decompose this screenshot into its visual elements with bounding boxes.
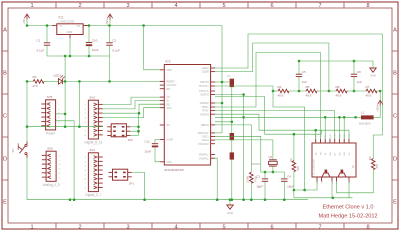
svg-text:R8: R8 <box>336 85 340 89</box>
node +3V3 bias tap <box>379 90 382 93</box>
capacitor C11 10uF <box>145 140 159 154</box>
svg-text:SV1: SV1 <box>89 148 95 152</box>
wire JP2 pin6 <box>130 135 138 137</box>
svg-text:Digital_0_7: Digital_0_7 <box>85 193 101 197</box>
wire C3 top <box>264 172 266 178</box>
svg-text:VI: VI <box>60 24 63 28</box>
wire C1 top <box>46 26 48 43</box>
svg-text:Power: Power <box>46 132 56 136</box>
wire D11/SI net <box>103 101 165 109</box>
wire D10/CS net <box>103 97 165 104</box>
svg-text:VO: VO <box>77 24 81 28</box>
wire C3 to rail <box>264 182 266 200</box>
wire SV5 vin pin down to rail <box>56 121 74 200</box>
capacitor C3 18pF <box>256 175 268 189</box>
wire +5V rail to IC1 VI <box>27 25 52 27</box>
wire JP1 to gnd rail <box>132 172 145 199</box>
svg-text:C11: C11 <box>145 140 151 144</box>
wire R3 top <box>293 134 295 160</box>
wire gnd line y126 <box>27 126 103 128</box>
wire vertical trunk x109 <box>109 56 111 81</box>
svg-text:SV2: SV2 <box>89 95 95 99</box>
svg-text:VDD: VDD <box>166 68 172 72</box>
supply +3V3 P3 <box>375 100 382 112</box>
svg-text:RDC: RDC <box>344 151 346 156</box>
wire R10 to rail <box>250 183 252 200</box>
svg-text:R2: R2 <box>368 156 372 160</box>
svg-text:25MHz: 25MHz <box>252 162 261 166</box>
svg-text:ENC28J60/SP: ENC28J60/SP <box>165 168 184 172</box>
wire vertical trunk x65 <box>64 56 66 127</box>
node trunk B junction <box>78 80 81 83</box>
svg-text:GND: GND <box>370 74 376 78</box>
wire C4 top <box>283 172 285 178</box>
svg-text:IC2: IC2 <box>166 60 171 64</box>
svg-text:3: 3 <box>126 3 129 9</box>
svg-text:S1: S1 <box>11 149 15 153</box>
svg-text:RD-: RD- <box>339 152 341 156</box>
svg-text:C3: C3 <box>256 175 260 179</box>
node RJ ct junction pin7 <box>343 116 346 119</box>
node gnd/x27 junction <box>26 125 29 128</box>
capacitor C12 <box>230 133 234 140</box>
wire RJ pin3 ct <box>324 117 326 138</box>
node C5 center tap <box>298 90 301 93</box>
wire C1 bottom <box>46 46 48 56</box>
svg-text:VSSPLL: VSSPLL <box>199 156 209 160</box>
wire C10 bottom <box>88 46 90 56</box>
svg-text:C7: C7 <box>227 74 231 78</box>
node C3 tap <box>264 171 267 174</box>
node TPOUT+ junction <box>272 90 275 93</box>
svg-text:C5: C5 <box>302 70 306 74</box>
capacitor C13 <box>230 152 234 159</box>
node C5/gnd line <box>298 60 301 63</box>
ground symbol GND2 <box>370 68 376 78</box>
svg-text:SV5: SV5 <box>47 95 53 99</box>
svg-text:270: 270 <box>296 165 300 170</box>
wire R8 to R7 <box>347 90 366 92</box>
node gnd rail / LED trunk <box>64 55 67 58</box>
LED LED1 <box>54 74 66 85</box>
capacitor C4 18pF <box>281 175 294 189</box>
wire C7 gnd chain down <box>231 87 233 200</box>
svg-text:VDDTX: VDDTX <box>200 80 209 84</box>
svg-text:D: D <box>393 157 397 163</box>
svg-text:SO: SO <box>166 102 170 106</box>
node x222/VDDRX <box>221 102 224 105</box>
svg-text:R3: R3 <box>289 158 293 162</box>
capacitor C5 1uF <box>296 70 307 84</box>
wire C8 bottom <box>353 77 355 91</box>
wire VSSPLL down to rail <box>215 158 217 200</box>
node C8/gnd line <box>353 60 356 63</box>
svg-text:RESET: RESET <box>166 80 175 84</box>
svg-text:3: 3 <box>126 224 129 230</box>
wire TPIN- to RJ pin5 <box>215 111 335 139</box>
svg-text:GND: GND <box>67 30 73 34</box>
wire OSC2 to Q1 top <box>215 140 273 160</box>
svg-text:VSSRX: VSSRX <box>200 112 209 116</box>
wire VSSTX down to rail <box>215 95 244 200</box>
svg-text:SCK: SCK <box>166 106 172 110</box>
wire center tap to L1 <box>215 116 361 118</box>
wire R4 to R5 <box>289 90 306 92</box>
svg-text:Ethernet Clone v 1.0: Ethernet Clone v 1.0 <box>323 205 374 211</box>
wire R7 right <box>377 90 380 92</box>
svg-text:TDC: TDC <box>320 151 322 156</box>
wire LEDA to R2 <box>215 34 382 159</box>
node +5V junction <box>26 24 29 27</box>
svg-text:LG: LG <box>332 180 334 183</box>
svg-text:18pF: 18pF <box>287 185 294 189</box>
wire +5V down to S1 <box>26 81 28 141</box>
capacitor C8 1uF <box>351 70 362 84</box>
wire TPIN+ to RJ pin2 <box>215 53 320 139</box>
wire VDDOSC tap <box>215 132 222 134</box>
svg-text:CS: CS <box>166 95 170 99</box>
svg-text:A: A <box>393 28 397 34</box>
svg-text:B: B <box>393 71 397 77</box>
connector SV6 Analog_0_5 header <box>42 146 61 187</box>
svg-text:RJ + pulse/LED: RJ + pulse/LED <box>314 159 316 175</box>
node JP2/SO junction <box>138 112 141 115</box>
svg-text:VSSTX: VSSTX <box>200 93 209 97</box>
wire R3 bottom <box>293 172 295 198</box>
wire VDDRX tap <box>215 102 222 104</box>
svg-text:7: 7 <box>318 224 321 230</box>
wire +3V3 arrow to rail <box>109 20 111 26</box>
node vsspll rail junction <box>216 198 219 201</box>
node C3 rail junction <box>264 198 267 201</box>
node vssrx cross <box>242 116 245 119</box>
wire +3V3 vertical trunk x222 <box>221 26 223 133</box>
svg-text:+5V: +5V <box>22 19 26 24</box>
svg-text:C: C <box>3 114 7 120</box>
svg-text:270: 270 <box>375 163 379 168</box>
node SV5 gnd junction <box>64 113 67 116</box>
resistor R10 2.00k <box>245 172 257 183</box>
svg-text:0.1uF: 0.1uF <box>112 48 120 52</box>
svg-text:VDDRX: VDDRX <box>200 101 209 105</box>
wire to gnd symbol 2 <box>372 61 374 68</box>
connector SV5 Power header <box>41 95 60 136</box>
wire C4 to rail <box>283 182 285 200</box>
wire +3V3 to IC2 VDD <box>144 26 160 70</box>
svg-text:R4: R4 <box>278 85 282 89</box>
node ledb/r5r8 junction <box>328 90 331 93</box>
svg-text:LED1: LED1 <box>54 74 62 78</box>
node gnd/x79 junction <box>78 125 81 128</box>
node C2/+3V3 tap <box>108 24 111 27</box>
svg-text:OSC2: OSC2 <box>202 138 210 142</box>
node C1 tap <box>46 24 49 27</box>
capacitor C1 0.1uF <box>37 39 51 53</box>
svg-text:10uF: 10uF <box>92 48 99 52</box>
node vss rail junction <box>242 198 245 201</box>
wire ground rail y56 <box>47 55 110 57</box>
svg-text:VSSOSC: VSSOSC <box>198 142 209 146</box>
capacitor C2 0.1uF <box>106 39 120 53</box>
svg-text:RBIAS: RBIAS <box>201 123 209 127</box>
svg-text:Analog_0_5: Analog_0_5 <box>43 183 60 187</box>
node tpout return junction <box>303 189 306 192</box>
resistor R5 49.9 <box>306 85 318 98</box>
node R3/line134 junction <box>293 133 296 136</box>
node x222/VDDTX <box>221 81 224 84</box>
wire TPOUT+ to RJ transformer return <box>273 91 305 190</box>
wire to gnd symbol <box>229 200 231 205</box>
svg-text:8: 8 <box>366 3 369 9</box>
node gnd rail / IC1 GND <box>69 55 72 58</box>
svg-text:1uF: 1uF <box>357 80 362 84</box>
svg-text:C10: C10 <box>92 38 98 42</box>
svg-text:BLM18HG: BLM18HG <box>359 122 371 126</box>
wire IC1 GND down <box>69 38 71 56</box>
svg-text:+3V3: +3V3 <box>375 105 379 112</box>
node gnd symbol junction <box>229 198 232 201</box>
wire RJ shield return <box>294 197 353 199</box>
svg-text:49.9: 49.9 <box>366 93 372 97</box>
switch S1 <box>11 142 27 158</box>
svg-text:5: 5 <box>222 224 225 230</box>
node gnd chain to rail <box>231 198 234 201</box>
svg-text:C4: C4 <box>287 175 291 179</box>
svg-text:GND: GND <box>227 211 233 215</box>
node RJ ct junction pin6 <box>338 116 341 119</box>
node trunk C junction <box>108 80 111 83</box>
jumper header JP1 <box>109 169 135 185</box>
svg-text:+3V3: +3V3 <box>105 19 109 26</box>
ethernet controller IC2 ENC28J60 <box>160 60 215 172</box>
svg-text:R7: R7 <box>366 85 370 89</box>
svg-text:TPOUT-: TPOUT- <box>199 89 209 93</box>
svg-text:TD-: TD- <box>325 152 327 156</box>
svg-text:L4931CZ33: L4931CZ33 <box>59 20 75 24</box>
wire S1 to bottom gnd rail <box>26 158 28 200</box>
svg-text:6: 6 <box>270 224 273 230</box>
svg-text:Digital_8_13: Digital_8_13 <box>85 141 103 145</box>
svg-text:18pF: 18pF <box>256 185 263 189</box>
connector SV1 Digital_0_7 header <box>85 148 103 197</box>
svg-text:7: 7 <box>318 3 321 9</box>
node VDD feed tap <box>142 24 145 27</box>
svg-text:1: 1 <box>30 3 33 9</box>
node C4 rail junction <box>283 198 286 201</box>
wire D13/SCK net <box>103 108 165 118</box>
node Q1 bottom tap <box>272 171 275 174</box>
wire to R4 <box>273 90 278 92</box>
svg-text:LEDA: LEDA <box>202 66 209 70</box>
wire C2 top <box>109 26 111 43</box>
wire C5 top <box>298 61 300 74</box>
wire LEDB net <box>215 43 329 91</box>
wire RBIAS to R10 <box>215 125 251 172</box>
node bottom rail junction x70 <box>69 198 72 201</box>
inductor L1 ferrite <box>359 110 374 125</box>
jumper header JP2 <box>107 124 133 142</box>
node C10 tap <box>88 24 91 27</box>
svg-text:LEDB: LEDB <box>202 70 209 74</box>
node +5V tap for R6 <box>26 80 29 83</box>
svg-text:VDDPLL: VDDPLL <box>199 153 210 157</box>
wire C2 bottom <box>109 46 111 56</box>
svg-text:VCAP: VCAP <box>166 138 173 142</box>
svg-text:VDDOSC: VDDOSC <box>198 131 209 135</box>
node JP1 rail junction <box>143 198 146 201</box>
wire RJ pin LG down <box>331 182 333 198</box>
svg-text:49.9: 49.9 <box>306 93 312 97</box>
wire VSSRX/RJ shield line <box>215 114 349 138</box>
svg-text:A: A <box>3 28 7 34</box>
wire 3V3 rail from IC1 VO <box>83 25 222 27</box>
frame row ticks and letters <box>3 28 397 206</box>
wire C10 top <box>88 26 90 43</box>
wire bottom ground rail <box>27 199 308 201</box>
svg-text:B: B <box>3 71 7 77</box>
wire OSC1 net <box>215 136 284 172</box>
svg-text:SI: SI <box>166 99 169 103</box>
supply +5V P1 <box>22 14 29 24</box>
wire R5 to R8 <box>317 90 336 92</box>
node shield junction <box>332 197 335 200</box>
wire JP2 pin2 <box>130 126 138 128</box>
wire C5 bottom <box>298 77 300 91</box>
wire VDDTX to C7 <box>215 81 229 83</box>
wire RJ pin SD down <box>348 182 350 198</box>
node LED/gnd trunk junction <box>64 80 67 83</box>
svg-text:2.00k: 2.00k <box>245 176 249 183</box>
svg-text:4: 4 <box>174 224 177 230</box>
voltage regulator IC1 L4931CZ33 <box>52 16 88 38</box>
supply +3V3 P2 <box>105 14 112 26</box>
wire +5V to R6 <box>27 80 33 82</box>
svg-text:1uF: 1uF <box>302 80 307 84</box>
node VSSRX tie <box>231 121 234 124</box>
svg-text:OSC1: OSC1 <box>202 135 210 139</box>
wire RJ pin1 up <box>315 130 317 138</box>
node L1 left junction <box>354 116 357 119</box>
wire JP2 vertical tie <box>138 113 140 135</box>
svg-text:TPIN+: TPIN+ <box>201 105 209 109</box>
wire bias stub <box>379 91 381 100</box>
node gnd/x65 junction <box>64 125 67 128</box>
resistor R8 49.9 <box>336 85 348 98</box>
svg-text:C2: C2 <box>112 39 116 43</box>
svg-text:TDct: TDct <box>319 133 322 138</box>
connector SV2 Digital_8_13 header <box>85 95 103 144</box>
svg-text:C1: C1 <box>37 39 41 43</box>
svg-text:2: 2 <box>78 224 81 230</box>
svg-text:VSS: VSS <box>166 160 171 164</box>
node vin rail junction <box>73 198 76 201</box>
wire C8 top <box>353 61 355 74</box>
svg-text:JP1: JP1 <box>129 182 135 186</box>
svg-text:RDct: RDct <box>334 133 337 138</box>
wire LED1 cathode to IC2 RESET <box>63 80 165 82</box>
wire led anode link <box>294 182 317 190</box>
capacitor C10 10uF <box>86 38 99 52</box>
wire VCAP to C11 <box>155 140 160 144</box>
svg-text:2: 2 <box>78 3 81 9</box>
svg-text:0.1uF: 0.1uF <box>37 48 45 52</box>
svg-text:1: 1 <box>30 224 33 230</box>
capacitor C7 <box>227 74 234 87</box>
node gnd rail / C10 <box>88 55 91 58</box>
wire RJ pin7 up <box>343 117 345 138</box>
node R10 rail junction <box>250 198 253 201</box>
RJ45 jack J1 <box>312 133 356 184</box>
ground symbol GND <box>227 200 233 215</box>
wire Q1 bottom <box>272 166 274 172</box>
wire R2 to RJ led2 <box>337 170 374 193</box>
wire RJ pin6 ct <box>338 117 340 138</box>
svg-text:C8: C8 <box>357 70 361 74</box>
svg-text:10uF: 10uF <box>145 149 152 153</box>
wire VSSRX to gnd chain <box>215 121 232 123</box>
svg-text:Matt Hedge 15-02-2012: Matt Hedge 15-02-2012 <box>318 214 377 220</box>
resistor R7 49.9 <box>366 85 378 98</box>
node C8 center tap <box>353 90 356 93</box>
svg-text:SV6: SV6 <box>47 146 53 150</box>
svg-text:CLKOUT: CLKOUT <box>166 83 177 87</box>
wire L1 to +3V3 <box>374 106 381 118</box>
node JP2 junction b <box>137 130 140 133</box>
svg-text:NC: NC <box>166 123 170 127</box>
wire D12/SO net <box>103 104 165 113</box>
node JP2 junction a <box>137 126 140 129</box>
wire C11 to VSS <box>155 147 160 161</box>
node vsstx corner <box>242 93 245 96</box>
resistor R3 270 <box>289 158 300 172</box>
svg-text:4: 4 <box>174 3 177 9</box>
svg-text:Q1: Q1 <box>269 155 273 159</box>
svg-text:E: E <box>3 200 7 206</box>
wire JP2 pin4 <box>130 130 138 132</box>
svg-text:R6: R6 <box>33 75 37 79</box>
resistor R2 270 <box>368 156 379 170</box>
svg-text:TPIN-: TPIN- <box>202 109 209 113</box>
node R3/led junction <box>293 189 296 192</box>
resistor R6 470 <box>33 75 45 88</box>
svg-text:6: 6 <box>270 3 273 9</box>
svg-text:49.9: 49.9 <box>336 93 342 97</box>
svg-text:C: C <box>393 114 397 120</box>
svg-text:TPOUT+: TPOUT+ <box>198 84 209 88</box>
node RJ pin1 junction <box>314 129 317 132</box>
svg-text:JP2: JP2 <box>128 138 134 142</box>
wire SV5 gnd pin to trunk <box>56 113 65 115</box>
svg-text:8: 8 <box>366 224 369 230</box>
svg-text:INT: INT <box>166 87 171 91</box>
svg-text:49.9: 49.9 <box>278 93 284 97</box>
wire TPOUT- to RJ approach <box>215 97 321 135</box>
crystal Q1 25MHz <box>252 155 278 166</box>
wire center-tap gnd line <box>299 60 373 62</box>
svg-text:5: 5 <box>222 3 225 9</box>
svg-text:L1: L1 <box>362 110 366 114</box>
svg-text:E: E <box>393 200 397 206</box>
wire TPOUT+ to R4 <box>215 86 273 91</box>
wire R6 to LED1 <box>44 80 58 82</box>
node RJ ct junction pin3 <box>324 116 327 119</box>
wire vertical trunk x79 <box>78 81 80 126</box>
svg-text:470: 470 <box>33 84 38 88</box>
svg-text:R5: R5 <box>306 85 310 89</box>
svg-text:D: D <box>3 157 7 163</box>
resistor R4 49.9 <box>278 85 290 98</box>
wire +5V arrow to rail <box>26 20 28 26</box>
